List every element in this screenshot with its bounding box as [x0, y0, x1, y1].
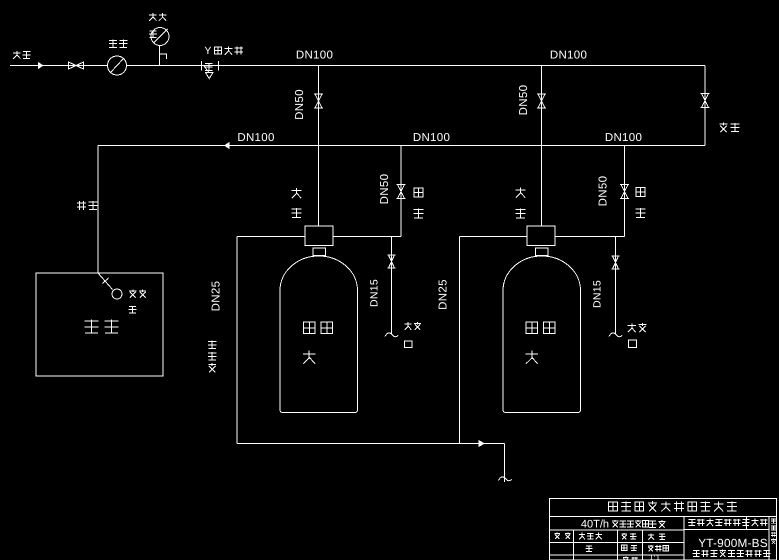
- drawing title: automatic softener installation: [693, 550, 700, 552]
- svg-text:DN15: DN15: [592, 280, 604, 308]
- svg-text:DN100: DN100: [413, 132, 450, 144]
- label: shuixiang (water tank): [85, 320, 99, 322]
- label: chushui vertical tank1: [414, 188, 423, 197]
- wire: tank2 drain downcomer DN25: [459, 237, 461, 444]
- svg-text:DN50: DN50: [598, 176, 610, 207]
- svg-text:DN50: DN50: [294, 89, 306, 120]
- wire: tank1 drain downcomer DN25: [236, 237, 238, 444]
- svg-text:YT-900M-BS: YT-900M-BS: [698, 536, 768, 550]
- svg-text:DN100: DN100: [605, 132, 642, 144]
- wire: tank1 inlet drop: [318, 66, 320, 227]
- label: pangtong (bypass): [719, 123, 727, 125]
- label: jinshui vertical tank1: [296, 188, 298, 194]
- wire: tank2 sample drop DN15: [615, 237, 617, 335]
- wire: tank2 valve left port to drain: [460, 236, 528, 238]
- svg-text:DN25: DN25: [211, 281, 223, 312]
- svg-text:DN100: DN100: [237, 132, 274, 144]
- water meter (circle with slash): [108, 56, 127, 75]
- tank1 neck: [313, 248, 326, 256]
- float valve ball: [112, 289, 122, 299]
- wire: tank1 valve left port to drain: [237, 236, 305, 238]
- tank2 neck: [536, 248, 549, 256]
- title block grid lines: [550, 516, 777, 518]
- sample port 1 break symbol: [385, 333, 398, 337]
- control valve head tank2: [527, 226, 555, 246]
- wire: tank2 valve right port to outlet: [555, 236, 625, 238]
- sample valve DN15 tank1: [388, 254, 396, 256]
- label: quyangkou (sample port) tank2: [631, 323, 633, 329]
- label: huishui (return): [77, 202, 86, 204]
- wire: bypass right riser: [704, 66, 706, 146]
- pressure gauge dial: [151, 28, 169, 46]
- sample port 2 break symbol: [609, 333, 622, 337]
- wire: raw water inlet top header DN100: [10, 65, 705, 67]
- gate valve on inlet (bowtie): [68, 62, 70, 70]
- second header flow arrow (leftward): [224, 142, 230, 149]
- label: jinshui vertical tank2: [520, 188, 522, 194]
- water tank (shuixiang) box: [36, 273, 163, 376]
- wire: tank1 outlet riser: [400, 146, 402, 237]
- wire: second header DN100: [98, 145, 705, 147]
- Y-strainer blowdown arrow: [206, 73, 214, 79]
- svg-text:DN50: DN50: [518, 85, 530, 116]
- control valve head tank1: [305, 226, 333, 246]
- wire: tank1 valve right port to outlet: [333, 236, 401, 238]
- wire: tank2 outlet riser: [624, 146, 626, 237]
- valve DN50 on tank2 inlet drop: [537, 93, 546, 95]
- title row: company name Beijing Yutao Engineering: [609, 502, 618, 511]
- bypass valve: [701, 93, 710, 95]
- row4: draw cells: [586, 545, 592, 547]
- label: fuqiufa (float valve): [129, 290, 136, 292]
- svg-text:DN50: DN50: [379, 174, 391, 205]
- valve DN50 on tank2 outlet: [620, 184, 629, 186]
- row3: approve / check / design cells: [554, 533, 560, 535]
- resin tank 2 vessel: [503, 256, 581, 413]
- svg-text:DN100: DN100: [550, 50, 587, 62]
- right margin tiny column text: [771, 518, 776, 520]
- svg-text:1:1: 1:1: [649, 553, 661, 560]
- pressure gauge stem: [159, 45, 161, 66]
- label: yali biao (pressure gauge): [152, 13, 154, 18]
- svg-text:Y: Y: [204, 45, 211, 57]
- wire: drain header: [237, 443, 505, 445]
- svg-text:40T/h: 40T/h: [581, 519, 609, 531]
- gauge cock tick: [160, 54, 167, 59]
- sample valve DN15 tank2: [612, 255, 620, 257]
- label: shuzhiguan tank2: [526, 322, 538, 334]
- svg-text:DN100: DN100: [296, 50, 333, 62]
- row2 right: Wanda hotel project: [688, 519, 695, 521]
- wire: drain outfall drop: [504, 444, 506, 483]
- resin tank 1 vessel: [280, 256, 358, 413]
- svg-text:DN25: DN25: [438, 279, 450, 310]
- Y-strainer body: [201, 61, 203, 71]
- label: quyangkou (sample port) tank1: [407, 322, 409, 327]
- drain flow arrow: [479, 440, 486, 447]
- label: paiwuguan (drain pipe) vertical: [208, 340, 216, 342]
- drain outfall break symbol: [499, 477, 512, 481]
- label: chushui vertical tank2: [636, 188, 645, 197]
- label: shuzhiguan tank1: [304, 322, 316, 334]
- wire: return line to water tank: [97, 146, 99, 274]
- label: shuibiao (water meter): [109, 39, 117, 41]
- svg-text:DN15: DN15: [369, 279, 381, 307]
- label: jinshui (raw water in): [16, 51, 18, 56]
- inlet flow arrow: [38, 62, 44, 69]
- wire: tank1 sample drop DN15: [391, 237, 393, 335]
- title block outer frame: [550, 499, 777, 560]
- float valve lever: [98, 273, 113, 290]
- row5: scale 1:1: [623, 557, 629, 559]
- valve DN50 on tank1 inlet drop: [314, 93, 323, 95]
- valve DN50 on tank1 outlet: [397, 184, 406, 186]
- wire: tank2 inlet drop: [541, 66, 543, 227]
